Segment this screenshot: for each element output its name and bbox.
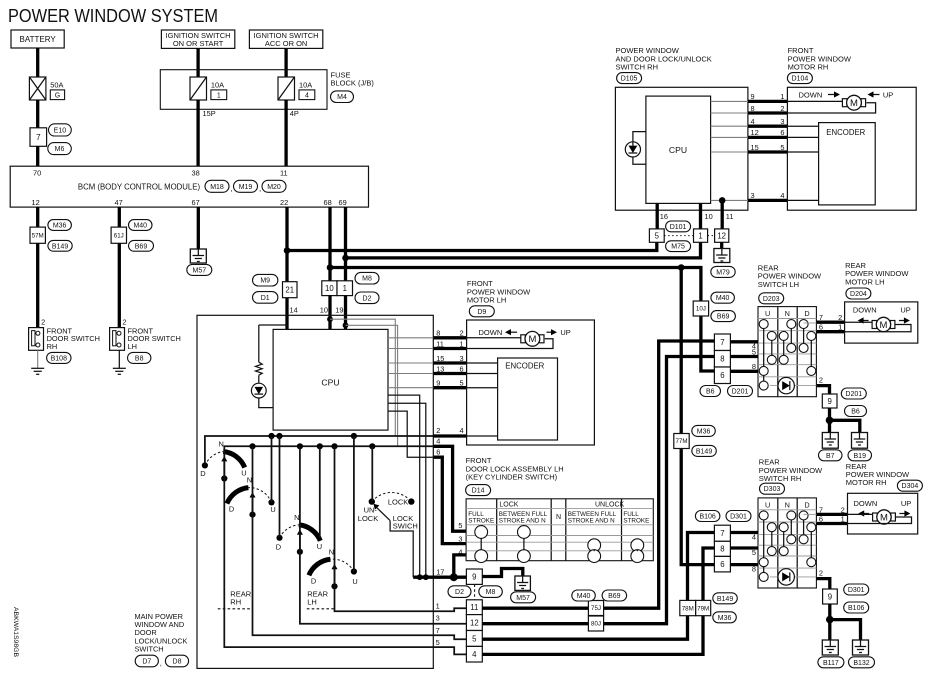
svg-text:70: 70 <box>33 169 41 178</box>
svg-text:N: N <box>247 476 252 485</box>
svg-text:LH: LH <box>128 342 137 351</box>
svg-text:D8: D8 <box>173 659 182 666</box>
joint connector 10J / M40 / B69 <box>693 301 708 316</box>
svg-text:ENCODER: ENCODER <box>505 361 544 370</box>
wire rocker R2 common to row 7 <box>253 446 467 639</box>
svg-text:D304: D304 <box>902 483 919 490</box>
svg-text:2: 2 <box>838 313 842 322</box>
wire motor RH armature left <box>787 100 842 102</box>
svg-text:ENCODER: ENCODER <box>826 128 865 137</box>
svg-text:D204: D204 <box>850 291 867 298</box>
wire rocker R2 U contact to bus1 <box>271 436 273 502</box>
wire motor RH armature right loop <box>787 103 875 113</box>
svg-text:10A: 10A <box>299 80 312 89</box>
svg-text:LH: LH <box>307 597 317 606</box>
svg-text:10: 10 <box>325 284 334 293</box>
wire connector 8 to table pin 5 rear RH <box>730 546 758 549</box>
svg-text:CPU: CPU <box>321 377 339 387</box>
wire unlock contact to bus2 <box>371 446 373 501</box>
svg-text:9: 9 <box>436 379 440 388</box>
svg-text:M: M <box>850 98 858 109</box>
connector 7 / E10 / M6 <box>30 128 47 147</box>
ground B117 <box>822 640 838 655</box>
svg-text:6: 6 <box>720 371 724 380</box>
svg-text:,: , <box>160 658 162 667</box>
ground below front door switch LH <box>113 368 126 374</box>
svg-text:M75: M75 <box>671 244 685 251</box>
svg-text:DOWN: DOWN <box>479 328 503 337</box>
svg-text:M9: M9 <box>260 278 270 285</box>
ovals B6 D201 below connector rear LH <box>700 386 721 397</box>
connector 21 / M9 / D1 <box>253 274 278 286</box>
connector 12 bottom <box>466 615 482 631</box>
wire CPU row to lock switch row b <box>388 403 426 577</box>
wire main switch pin 9 to motor LH pin 5 <box>388 387 433 389</box>
svg-text:47: 47 <box>115 198 123 207</box>
svg-text:M36: M36 <box>718 615 732 622</box>
junction on wire 68 bus C <box>327 264 334 271</box>
resistor R1 main switch <box>258 325 260 362</box>
wire main switch pin 11 to motor LH pin 1 <box>388 348 433 350</box>
svg-text:8: 8 <box>752 564 756 573</box>
wire connector 8 to table pin 5 rear LH <box>730 355 758 358</box>
wire key cylinder pin 4 branch <box>454 555 466 577</box>
svg-text:N: N <box>219 440 224 449</box>
wire row 1 connector 11 to rear switch LH pin 7 <box>482 341 714 608</box>
key cylinder switch table D14 <box>466 499 653 563</box>
encoder LH box <box>498 358 558 440</box>
svg-text:1: 1 <box>217 92 221 99</box>
connector 5 bottom <box>466 631 482 647</box>
front power window motor LH outline D9 <box>467 320 595 445</box>
wire connector 9 to grounds rear LH <box>828 408 831 433</box>
svg-text:M: M <box>880 512 888 523</box>
svg-text:D203: D203 <box>763 296 780 303</box>
svg-text:MOTOR RH: MOTOR RH <box>846 478 887 487</box>
svg-text:D: D <box>200 469 205 478</box>
svg-text:D201: D201 <box>845 391 862 398</box>
svg-text:1: 1 <box>841 515 845 524</box>
ground M57 top <box>190 249 206 263</box>
main power window and door lock/unlock switch outline D7 D8 <box>197 315 433 668</box>
svg-text:2: 2 <box>819 569 823 578</box>
svg-text:14: 14 <box>290 305 298 314</box>
svg-text:2: 2 <box>459 329 463 338</box>
svg-text:BCM (BODY CONTROL MODULE): BCM (BODY CONTROL MODULE) <box>78 182 201 191</box>
svg-text:9: 9 <box>751 92 755 101</box>
ground B7 <box>822 433 838 449</box>
svg-text:D201: D201 <box>732 389 749 396</box>
wire motor LH armature right loop <box>467 339 553 349</box>
svg-text:D7: D7 <box>142 659 151 666</box>
svg-text:38: 38 <box>192 169 200 178</box>
wire fuse4 to BCM pin 11 label 4P <box>284 100 287 166</box>
wire BCM 67 to ground M57 <box>197 207 200 249</box>
svg-text:9: 9 <box>827 397 831 406</box>
connector 11 <box>466 600 482 615</box>
wire connector 9 to ground M57 <box>482 569 523 577</box>
svg-text:1: 1 <box>780 92 784 101</box>
svg-text:N: N <box>785 309 790 318</box>
svg-text:SWITCH: SWITCH <box>135 644 164 653</box>
svg-text:5: 5 <box>752 348 756 357</box>
svg-text:D105: D105 <box>621 76 638 83</box>
wire rear switch LH pin 2 to connector 9 <box>816 386 829 394</box>
battery B1 <box>11 30 64 48</box>
ignition switch ACC OR ON <box>249 30 322 48</box>
wire BCM 47 to 61J <box>118 207 121 227</box>
connector 8 rear RH <box>714 541 730 556</box>
svg-text:M40: M40 <box>577 593 591 600</box>
wire main switch pin 8 to motor LH pin 2 <box>388 337 433 339</box>
svg-text:6: 6 <box>819 323 823 332</box>
wire connector 7 to BCM pin 70 <box>36 146 39 166</box>
BCM body control module M18 M19 M20 <box>10 166 368 207</box>
wire connector 9 to grounds rear RH <box>828 604 831 640</box>
svg-text:LOCK: LOCK <box>358 514 378 523</box>
wire row 5 connector 5 to rear switch RH pin 7 <box>482 533 714 640</box>
svg-text:8: 8 <box>720 545 724 554</box>
wire rocker R4 U contact to bus1 <box>353 436 355 571</box>
tap wire 10 to vertical feed <box>327 316 333 322</box>
svg-text:U: U <box>317 542 322 551</box>
svg-text:10: 10 <box>320 305 328 314</box>
svg-text:8: 8 <box>751 104 755 113</box>
svg-text:68: 68 <box>324 198 332 207</box>
connector 1 top right <box>694 229 708 242</box>
svg-text:M40: M40 <box>133 223 147 230</box>
svg-text:1: 1 <box>459 339 463 348</box>
wire front door switch LH to ground <box>118 350 120 368</box>
joint connector 78M 79M / B149 / M36 <box>680 600 696 615</box>
svg-text:11: 11 <box>436 339 444 348</box>
LED indicator switch RH <box>633 132 646 142</box>
svg-text:SWITCH LH: SWITCH LH <box>758 280 799 289</box>
bus B wire 69 to switch RH connector 1 <box>346 242 701 258</box>
svg-text:10J: 10J <box>696 306 706 313</box>
svg-text:,: , <box>231 184 233 193</box>
window rocker switch rear RH up side (R3) <box>276 513 322 555</box>
svg-text:B106: B106 <box>848 605 864 612</box>
svg-text:M19: M19 <box>239 184 253 191</box>
svg-text:8: 8 <box>720 355 724 364</box>
svg-text:SWITCH RH: SWITCH RH <box>616 63 659 72</box>
svg-text:M57: M57 <box>516 595 530 602</box>
svg-text:79M: 79M <box>697 605 709 612</box>
svg-text:B149: B149 <box>52 243 68 250</box>
svg-text:M8: M8 <box>486 589 496 596</box>
svg-text:7: 7 <box>436 626 440 635</box>
svg-text:ACC OR ON: ACC OR ON <box>265 39 308 48</box>
svg-text:B69: B69 <box>135 243 148 250</box>
svg-text:77M: 77M <box>675 438 687 445</box>
wire main switch pin 17 to connector 9 <box>413 576 466 579</box>
svg-text:UP: UP <box>901 499 911 508</box>
svg-text:DOWN: DOWN <box>854 499 878 508</box>
wire CPU row to pin6 bar <box>388 411 433 457</box>
ground B19 <box>852 433 868 449</box>
svg-text:1: 1 <box>343 284 347 293</box>
svg-text:UP: UP <box>883 90 893 99</box>
connector 8 rear LH <box>714 351 730 368</box>
connector 7 rear LH <box>714 334 730 351</box>
connector 6 rear RH <box>714 556 730 572</box>
svg-text:LOCK: LOCK <box>499 501 518 508</box>
svg-text:B149: B149 <box>717 596 733 603</box>
connector 12 top right <box>715 229 729 242</box>
svg-text:1: 1 <box>436 601 440 610</box>
wire connector 12 to ground M79 <box>720 242 723 248</box>
wire fuse1 to BCM pin 38 label 15P <box>196 100 199 166</box>
wire rear switch RH pin 2 to connector 9 <box>816 579 829 589</box>
wire switch RH pin 11 <box>721 200 724 229</box>
ground below front door switch RH <box>31 368 44 374</box>
wire main switch pin 15 to motor LH pin 3 <box>388 362 433 364</box>
wire connector 7 to table pin 4 rear LH <box>730 340 758 343</box>
wire BCM 69 to connector 1 <box>344 207 347 281</box>
svg-text:11: 11 <box>280 169 288 178</box>
power window switch RH outline D105 <box>615 87 748 210</box>
svg-text:5: 5 <box>655 231 660 240</box>
svg-text:5: 5 <box>459 379 463 388</box>
fuse block J/B box M4 <box>160 70 327 110</box>
svg-text:N: N <box>785 500 790 509</box>
CPU U1 main switch <box>273 329 388 430</box>
wire rocker R1 common to row 5 <box>224 479 466 655</box>
svg-text:N: N <box>556 514 561 521</box>
svg-text:B7: B7 <box>826 453 835 460</box>
wire resistor branch to pin 14 <box>259 324 287 326</box>
wire 57M to front door switch RH <box>36 243 39 327</box>
wire CPU row to lock switch row a <box>388 395 420 577</box>
joint connector 75J <box>588 601 603 616</box>
joint connector 80J <box>588 616 603 631</box>
svg-text:3: 3 <box>459 354 463 363</box>
wire encoder LH pin rows <box>467 362 498 364</box>
svg-text:B8: B8 <box>135 355 144 362</box>
svg-text:RH: RH <box>230 597 241 606</box>
svg-text:5: 5 <box>472 634 477 643</box>
svg-text:M4: M4 <box>337 94 347 101</box>
rear power window switch RH table D303 <box>758 498 816 588</box>
svg-text:9: 9 <box>828 592 832 601</box>
svg-text:7: 7 <box>720 529 724 538</box>
lock switch contacts <box>369 498 375 504</box>
svg-text:5: 5 <box>780 143 784 152</box>
svg-text:B117: B117 <box>823 660 839 667</box>
svg-text:D: D <box>229 505 234 514</box>
junction on wire 69 bus B <box>342 255 349 262</box>
svg-text:4: 4 <box>459 426 463 435</box>
svg-text:7: 7 <box>36 133 41 142</box>
svg-text:B6: B6 <box>706 389 715 396</box>
svg-text:15: 15 <box>751 143 759 152</box>
svg-text:DOWN: DOWN <box>853 305 877 314</box>
svg-text:N: N <box>329 547 334 556</box>
svg-text:D9: D9 <box>477 309 486 316</box>
svg-text:69: 69 <box>339 198 347 207</box>
svg-text:75J: 75J <box>591 605 601 612</box>
svg-text:B69: B69 <box>717 314 730 321</box>
svg-text:3: 3 <box>458 535 462 544</box>
svg-text:6: 6 <box>780 128 784 137</box>
svg-text:UNLOCK: UNLOCK <box>595 501 625 508</box>
wire battery to fusible link <box>36 48 39 77</box>
svg-text:15P: 15P <box>203 109 216 118</box>
svg-text:STROKE: STROKE <box>623 518 649 525</box>
bus 1 rocker contact feed <box>205 436 433 465</box>
svg-text:M36: M36 <box>697 428 711 435</box>
rear power window motor RH outline D304 <box>848 493 918 534</box>
svg-text:N: N <box>294 513 299 522</box>
tap wire 19 to vertical feed <box>343 322 349 328</box>
wire connector 6 to table pin 8 rear LH <box>730 370 758 373</box>
wire 10 to main switch pin 10 <box>328 296 331 330</box>
svg-text:2: 2 <box>41 317 45 326</box>
wire main switch pin 4 to key cylinder 5 <box>433 446 466 531</box>
dotted link connector 5 to 1 <box>664 235 693 237</box>
wire main switch pin 13 to motor LH pin 6 <box>388 373 433 375</box>
wire BCM 12 to 57M <box>36 207 39 227</box>
window rocker switch rear LH (R4) <box>309 547 358 589</box>
svg-text:1: 1 <box>838 323 842 332</box>
svg-text:D: D <box>804 309 809 318</box>
svg-text:4: 4 <box>305 92 309 99</box>
svg-text:M: M <box>528 334 536 345</box>
svg-text:12: 12 <box>470 618 479 627</box>
svg-text:D101: D101 <box>670 224 687 231</box>
svg-text:6: 6 <box>459 364 463 373</box>
svg-text:57M: 57M <box>32 232 44 239</box>
svg-text:M57: M57 <box>192 267 206 274</box>
connector 9 rear RH / D301 / B106 <box>823 589 838 604</box>
svg-text:13: 13 <box>436 364 444 373</box>
svg-text:4: 4 <box>751 117 755 126</box>
svg-text:RH: RH <box>47 342 58 351</box>
connector 9 / D2 / M8 <box>466 569 482 584</box>
svg-text:7: 7 <box>720 338 724 347</box>
svg-text:5: 5 <box>436 638 440 647</box>
ground M79 <box>714 249 730 263</box>
svg-text:D303: D303 <box>764 486 781 493</box>
wire rocker R4 common to row 1 <box>335 446 467 611</box>
svg-text:M: M <box>880 320 888 331</box>
junction pin 3 row to connector 12 <box>719 197 726 204</box>
wire rear switch RH pin 6 to motor RH pin 1 <box>816 522 847 525</box>
svg-text:12: 12 <box>717 231 726 240</box>
wire switch RH pin 10 <box>699 203 702 229</box>
svg-text:U: U <box>352 577 357 586</box>
lock switch lever and wire to pin 17 row <box>376 507 390 520</box>
encoder RH box <box>819 123 876 205</box>
svg-text:21: 21 <box>285 286 294 295</box>
svg-text:M8: M8 <box>362 276 372 283</box>
svg-text:1: 1 <box>698 231 702 240</box>
svg-text:67: 67 <box>192 198 200 207</box>
svg-text:12: 12 <box>32 198 40 207</box>
svg-text:U: U <box>765 500 770 509</box>
wire 21 to main switch pin 14 <box>285 298 288 330</box>
svg-text:22: 22 <box>280 198 288 207</box>
wire switch RH pin 4 to motor RH pin 3 <box>711 125 748 127</box>
connector 7 rear RH <box>714 525 730 541</box>
wire rear switch LH pin 6 to motor LH pin 1 <box>816 330 844 333</box>
svg-text:B6: B6 <box>851 409 860 416</box>
svg-text:STROKE: STROKE <box>468 518 494 525</box>
svg-text:50A: 50A <box>50 80 63 89</box>
wire ignition1 to fuse 1 <box>196 48 199 77</box>
svg-text:8: 8 <box>436 329 440 338</box>
wire connector 6 to table pin 8 rear RH <box>730 563 758 566</box>
wire rear switch RH pin 7 to motor RH pin 2 <box>816 513 847 516</box>
svg-text:12: 12 <box>751 128 759 137</box>
fuse 10A 4 <box>278 77 295 100</box>
svg-text:U: U <box>765 309 770 318</box>
svg-text:LOCK: LOCK <box>388 498 408 507</box>
svg-text:10A: 10A <box>211 80 224 89</box>
svg-text:G: G <box>55 92 60 99</box>
svg-text:B108: B108 <box>51 355 67 362</box>
svg-text:B69: B69 <box>608 593 621 600</box>
svg-text:8: 8 <box>752 362 756 371</box>
svg-text:15: 15 <box>436 354 444 363</box>
svg-text:DOWN: DOWN <box>799 90 823 99</box>
wire switch RH pin 16 <box>656 203 659 229</box>
svg-text:D: D <box>311 576 316 585</box>
wire switch RH pin 15 to motor RH pin 5 <box>711 151 748 153</box>
junction on wire 22 bus A <box>284 247 291 254</box>
svg-text:M40: M40 <box>716 295 730 302</box>
svg-text:ON OR START: ON OR START <box>173 39 224 48</box>
connector 5 / D101 / M75 <box>649 229 664 242</box>
svg-text:6: 6 <box>436 447 440 456</box>
wire main switch pin 6 to key cylinder 3 <box>433 457 466 543</box>
wire BCM 68 to connector 10 <box>328 207 331 281</box>
front power window motor RH outline D104 <box>787 87 916 210</box>
joint connector 77M / M36 / B149 <box>674 434 689 449</box>
svg-text:4: 4 <box>752 532 756 541</box>
svg-text:BATTERY: BATTERY <box>20 35 57 44</box>
wire BCM 22 to connector 21 <box>285 207 288 282</box>
ovals M40 B69 above 75J <box>572 590 596 601</box>
svg-text:2: 2 <box>436 426 440 435</box>
wire switch RH pin 9 to motor RH pin 1 <box>711 100 748 102</box>
svg-text:U: U <box>270 505 275 514</box>
bus A wire 22 to switch RH connector 5 <box>287 242 657 250</box>
svg-text:CPU: CPU <box>669 145 687 155</box>
connector 6 rear LH <box>714 367 730 384</box>
svg-text:3: 3 <box>436 614 440 623</box>
svg-text:10: 10 <box>705 212 713 221</box>
svg-text:17: 17 <box>436 568 444 577</box>
wire main switch pin 2 to motor LH pin 4 <box>433 434 466 437</box>
svg-text:D301: D301 <box>730 514 747 521</box>
svg-text:2: 2 <box>819 376 823 385</box>
wire rear switch LH pin 7 to motor LH pin 2 <box>816 321 844 324</box>
svg-text:11: 11 <box>726 212 734 221</box>
svg-text:M18: M18 <box>210 184 224 191</box>
svg-text:M20: M20 <box>267 184 281 191</box>
wire encoder RH pin rows <box>787 125 818 127</box>
svg-text:POWER WINDOW SYSTEM: POWER WINDOW SYSTEM <box>8 6 218 26</box>
svg-text:D: D <box>804 500 809 509</box>
svg-text:6: 6 <box>819 515 823 524</box>
svg-text:80J: 80J <box>591 621 601 628</box>
svg-text:3: 3 <box>751 191 755 200</box>
wire front door switch RH to ground <box>37 350 39 368</box>
svg-text:4: 4 <box>780 191 784 200</box>
svg-text:78M: 78M <box>682 605 694 612</box>
